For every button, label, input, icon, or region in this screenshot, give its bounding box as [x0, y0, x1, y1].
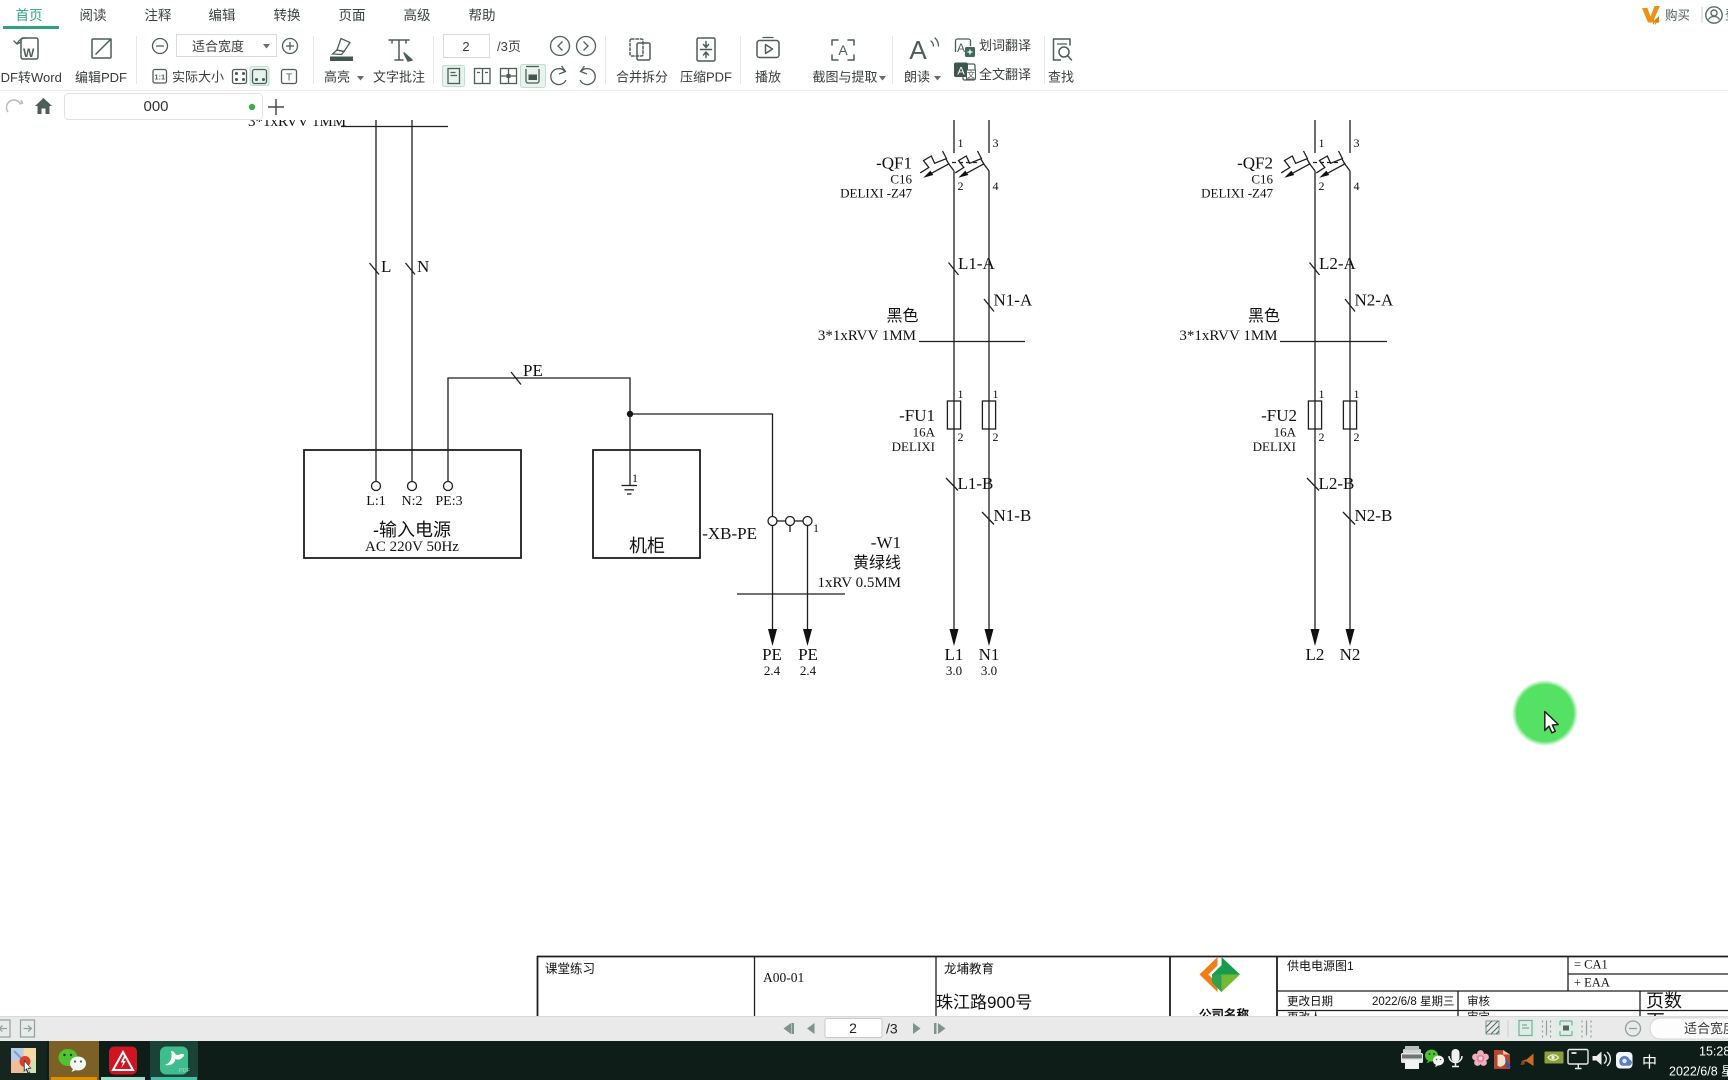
svg-text:2: 2 — [1319, 179, 1325, 193]
title block vertical logo-left — [1169, 956, 1171, 1016]
wire to ground — [629, 414, 631, 485]
svg-text:课堂练习: 课堂练习 — [545, 961, 595, 976]
svg-text:页数: 页数 — [1646, 991, 1682, 1011]
terminal PE:3 — [444, 482, 453, 491]
svg-text:高亮: 高亮 — [324, 70, 350, 85]
terminal L:1 — [372, 482, 381, 491]
svg-text:购买: 购买 — [1665, 8, 1690, 23]
svg-text:+ EAA: + EAA — [1574, 976, 1610, 990]
title block vertical left — [537, 956, 539, 1016]
svg-text:3.0: 3.0 — [981, 663, 997, 678]
title block hline row2 — [1277, 990, 1728, 992]
title block vertical logo-right — [1276, 956, 1278, 1016]
svg-text:PDF转Word: PDF转Word — [0, 70, 62, 85]
svg-text:-QF1: -QF1 — [876, 154, 912, 173]
compress — [697, 38, 715, 61]
svg-text:PE: PE — [798, 645, 818, 664]
ground symbol — [622, 485, 638, 487]
node L2-A — [1310, 263, 1320, 276]
T sq — [282, 70, 297, 84]
1:1 — [153, 70, 167, 84]
svg-text:2022/6/8 星期三: 2022/6/8 星期三 — [1669, 1065, 1728, 1079]
svg-text:-XB-PE: -XB-PE — [702, 524, 757, 543]
svg-text:黑色: 黑色 — [886, 307, 918, 325]
svg-text:4: 4 — [993, 179, 999, 193]
app cell 4 swift pdf — [150, 1041, 198, 1080]
svg-text:16A: 16A — [913, 425, 936, 440]
svg-text:2.4: 2.4 — [764, 663, 781, 678]
title block vertical col2 — [754, 956, 756, 1016]
svg-text:-FU2: -FU2 — [1261, 406, 1297, 425]
node L1-B — [946, 478, 958, 491]
svg-text:3: 3 — [993, 136, 999, 150]
wire to XB-PE — [630, 414, 773, 517]
arrow PE left — [768, 629, 777, 646]
svg-text:全文翻译: 全文翻译 — [979, 67, 1031, 82]
junction dot — [627, 411, 633, 417]
node N slash — [406, 263, 416, 275]
cable marker line — [919, 341, 1025, 343]
wire N1 top — [988, 120, 990, 153]
app cell 3 warning — [109, 1047, 137, 1075]
blue cloud app — [1616, 1052, 1633, 1069]
svg-text:L:1: L:1 — [366, 494, 385, 509]
app cell 1 — [0, 1041, 47, 1080]
merge/split — [630, 39, 650, 60]
zoom in — [283, 39, 298, 54]
node L1-A — [949, 263, 959, 276]
svg-text:N1-A: N1-A — [994, 291, 1033, 310]
svg-text:AC 220V 50Hz: AC 220V 50Hz — [365, 539, 459, 555]
svg-text:C16: C16 — [1251, 172, 1273, 187]
svg-text:N1-B: N1-B — [994, 506, 1032, 525]
breaker QF2 pole A — [1281, 151, 1315, 178]
svg-text:15:28: 15:28 — [1699, 1045, 1728, 1059]
svg-text:1: 1 — [813, 521, 819, 535]
svg-text:A00-01: A00-01 — [763, 970, 804, 985]
svg-text:3.0: 3.0 — [946, 663, 962, 678]
dotted sq — [233, 70, 247, 84]
svg-text:A: A — [957, 41, 965, 55]
wire L2 top — [1314, 120, 1316, 153]
breaker QF2 pole B — [1316, 151, 1350, 178]
flower — [1472, 1050, 1489, 1066]
svg-text:DELIXI -Z47: DELIXI -Z47 — [1201, 186, 1273, 201]
node N2-B — [1343, 512, 1355, 525]
svg-text:L: L — [381, 257, 391, 276]
editpdf icon — [92, 39, 111, 58]
svg-text:-输入电源: -输入电源 — [373, 520, 451, 540]
svg-text:更改日期: 更改日期 — [1287, 994, 1333, 1008]
svg-text:T: T — [286, 73, 292, 84]
svg-text:/3页: /3页 — [497, 39, 521, 54]
svg-text:N1: N1 — [979, 645, 1000, 664]
wire L vertical — [375, 120, 377, 481]
cabinet box — [593, 450, 700, 558]
svg-text:/3: /3 — [886, 1021, 898, 1037]
svg-text:W: W — [23, 46, 35, 60]
svg-text:文字批注: 文字批注 — [373, 70, 425, 85]
app cell 2 wechat — [49, 1041, 99, 1080]
printer — [1401, 1046, 1423, 1069]
svg-text:文: 文 — [967, 70, 975, 80]
pdf2word icon — [14, 38, 38, 60]
svg-text:1:1: 1:1 — [154, 73, 165, 82]
nvidia — [1545, 1052, 1564, 1064]
svg-text:-W1: -W1 — [871, 533, 901, 552]
svg-text:DELIXI: DELIXI — [1253, 439, 1296, 454]
svg-text:IP: IP — [1653, 18, 1660, 27]
breaker QF1 pole A — [920, 151, 954, 178]
svg-text:供电电源图1: 供电电源图1 — [1287, 959, 1354, 973]
node L slash — [370, 263, 380, 275]
PE wire down left — [772, 526, 774, 631]
node N2-A — [1345, 299, 1355, 312]
svg-text:编辑PDF: 编辑PDF — [75, 70, 127, 85]
taskbar tray — [1390, 1041, 1728, 1080]
terminal N:2 — [408, 482, 417, 491]
wire N1 main — [988, 171, 990, 630]
arrow PE right — [803, 629, 812, 646]
svg-text:1: 1 — [958, 136, 964, 150]
page nav — [784, 1023, 792, 1034]
svg-text:2022/6/8 星期三: 2022/6/8 星期三 — [1372, 995, 1454, 1008]
svg-text:黑色: 黑色 — [1248, 307, 1280, 325]
svg-text:3*1xRVV 1MM: 3*1xRVV 1MM — [818, 328, 916, 344]
XB-PE terminal circle 2 — [786, 517, 795, 526]
green click indicator + cursor — [1505, 672, 1595, 762]
svg-text:3: 3 — [1354, 136, 1360, 150]
speaker — [1593, 1052, 1611, 1067]
QF1 linkage — [952, 162, 977, 164]
svg-text:L2-B: L2-B — [1319, 474, 1355, 493]
svg-text:4: 4 — [1354, 179, 1360, 193]
svg-text:截图与提取: 截图与提取 — [812, 70, 877, 85]
svg-text:3*1xRVV 1MM: 3*1xRVV 1MM — [1179, 328, 1277, 344]
title block vertical col3 — [935, 956, 937, 1016]
svg-text:2.4: 2.4 — [800, 663, 817, 678]
svg-text:L1: L1 — [945, 645, 964, 664]
svg-text:压缩PDF: 压缩PDF — [680, 70, 732, 85]
title block vertical pages-cell — [1639, 991, 1641, 1016]
svg-text:1: 1 — [632, 471, 638, 485]
svg-text:PE: PE — [762, 645, 782, 664]
wire L1 top — [953, 120, 955, 153]
svg-text:A: A — [909, 35, 927, 65]
svg-text:N: N — [417, 257, 429, 276]
svg-text:3*1xRVV 1MM: 3*1xRVV 1MM — [248, 120, 346, 130]
company logo — [1200, 957, 1218, 992]
svg-text:L1-B: L1-B — [958, 474, 994, 493]
svg-text:朗读: 朗读 — [904, 70, 930, 85]
node N1-B — [982, 512, 994, 525]
zoom out — [153, 39, 168, 54]
svg-text:16A: 16A — [1274, 425, 1297, 440]
arrow N2 — [1346, 629, 1355, 646]
svg-text:L2: L2 — [1306, 645, 1325, 664]
svg-text:1: 1 — [1319, 136, 1325, 150]
svg-text:N2-B: N2-B — [1355, 506, 1393, 525]
find — [1054, 39, 1072, 60]
svg-text:1xRV 0.5MM: 1xRV 0.5MM — [817, 575, 901, 591]
page box — [444, 35, 490, 58]
svg-text:PE:3: PE:3 — [435, 494, 462, 509]
svg-text:适合宽度: 适合宽度 — [1684, 1021, 1728, 1036]
XB-PE link wire 2-3 — [795, 520, 804, 522]
svg-text:000: 000 — [143, 98, 168, 115]
svg-text:实际大小: 实际大小 — [172, 70, 224, 85]
svg-text:中: 中 — [1642, 1054, 1657, 1071]
svg-text:机柜: 机柜 — [629, 536, 665, 556]
combo — [177, 35, 277, 57]
XB-PE terminal circle 1 — [768, 517, 777, 526]
QF2 linkage — [1313, 162, 1338, 164]
svg-text:DELIXI: DELIXI — [892, 439, 935, 454]
arrow L2 — [1311, 629, 1320, 646]
wire PE horizontal — [448, 378, 630, 481]
breaker QF1 pole B — [955, 151, 989, 178]
wire bus underline top-left — [341, 126, 448, 128]
svg-text:A: A — [838, 42, 848, 58]
node N1-A — [984, 299, 994, 312]
monitor — [1568, 1050, 1588, 1069]
svg-text:划词翻译: 划词翻译 — [979, 38, 1031, 53]
fuse FU1 pole A — [947, 387, 963, 444]
node L2-B — [1307, 478, 1319, 491]
title block vertical audit-cell — [1457, 991, 1459, 1016]
fuse FU2 pole B — [1343, 387, 1359, 444]
svg-text:合并拆分: 合并拆分 — [616, 70, 668, 85]
mic — [1449, 1049, 1462, 1067]
svg-text:查找: 查找 — [1048, 70, 1074, 85]
svg-text:审核: 审核 — [1467, 994, 1490, 1008]
title block vertical ref-cell — [1567, 956, 1569, 991]
svg-text:C16: C16 — [890, 172, 912, 187]
word translate — [956, 39, 971, 55]
svg-text:N2-A: N2-A — [1355, 291, 1394, 310]
svg-text:播放: 播放 — [755, 70, 781, 85]
XB-PE link wire 1-2 — [777, 520, 786, 522]
wire N2 top — [1349, 120, 1351, 153]
wire N2 main — [1349, 171, 1351, 630]
screenshot — [832, 40, 854, 60]
right icons — [1486, 1021, 1499, 1034]
toolbar svg layer — [0, 0, 1100, 90]
svg-text:-FU1: -FU1 — [899, 406, 935, 425]
svg-text:黄绿线: 黄绿线 — [853, 554, 901, 572]
svg-text:L2-A: L2-A — [1319, 254, 1357, 273]
svg-text:PDF: PDF — [179, 1068, 191, 1074]
XB-PE centre tick — [789, 526, 791, 533]
svg-text:PE: PE — [523, 361, 543, 380]
dotted sq selected — [250, 67, 269, 86]
input power box — [304, 450, 521, 558]
svg-text:公司名称: 公司名称 — [1199, 1007, 1250, 1016]
title block hline ref split — [1568, 973, 1728, 975]
svg-text:2: 2 — [958, 179, 964, 193]
XB-PE terminal circle 3 — [803, 517, 812, 526]
svg-text:= CA1: = CA1 — [1574, 958, 1608, 972]
svg-text:适合宽度: 适合宽度 — [192, 39, 244, 54]
svg-text:2: 2 — [849, 1020, 857, 1036]
wechat mini — [1425, 1050, 1444, 1068]
svg-text:N2: N2 — [1340, 645, 1361, 664]
svg-text:DELIXI -Z47: DELIXI -Z47 — [840, 186, 912, 201]
arrow L1 — [950, 629, 959, 646]
horn muted — [1521, 1054, 1534, 1067]
svg-text:龙埔教育: 龙埔教育 — [944, 961, 994, 976]
cable W1 tick line — [737, 593, 845, 595]
page layout icons — [443, 66, 465, 87]
cable marker line (feeder 2) — [1280, 341, 1387, 343]
title block hline row3 — [1277, 1010, 1728, 1012]
wire L2 main — [1314, 171, 1316, 630]
highlight — [333, 39, 351, 55]
PE wire down right — [807, 526, 809, 631]
vip + login — [1639, 3, 1728, 27]
arrow N1 — [985, 629, 994, 646]
read aloud — [909, 35, 938, 65]
svg-text:珠江路900号: 珠江路900号 — [936, 993, 1032, 1012]
svg-text:-QF2: -QF2 — [1237, 154, 1273, 173]
fuse FU1 pole B — [982, 387, 998, 444]
text annot — [389, 40, 412, 61]
red/blue doc icon — [1494, 1050, 1511, 1069]
svg-text:2: 2 — [462, 39, 469, 54]
frame top line — [537, 956, 1728, 958]
wire N vertical — [411, 120, 413, 481]
svg-text:N:2: N:2 — [402, 494, 423, 509]
wire L1 main — [953, 171, 955, 630]
node PE label — [511, 372, 521, 385]
play — [757, 38, 779, 58]
fuse FU2 pole A — [1308, 387, 1324, 444]
svg-text:A: A — [957, 66, 965, 78]
fulltext translate — [963, 64, 975, 80]
svg-text:L1-A: L1-A — [958, 254, 996, 273]
